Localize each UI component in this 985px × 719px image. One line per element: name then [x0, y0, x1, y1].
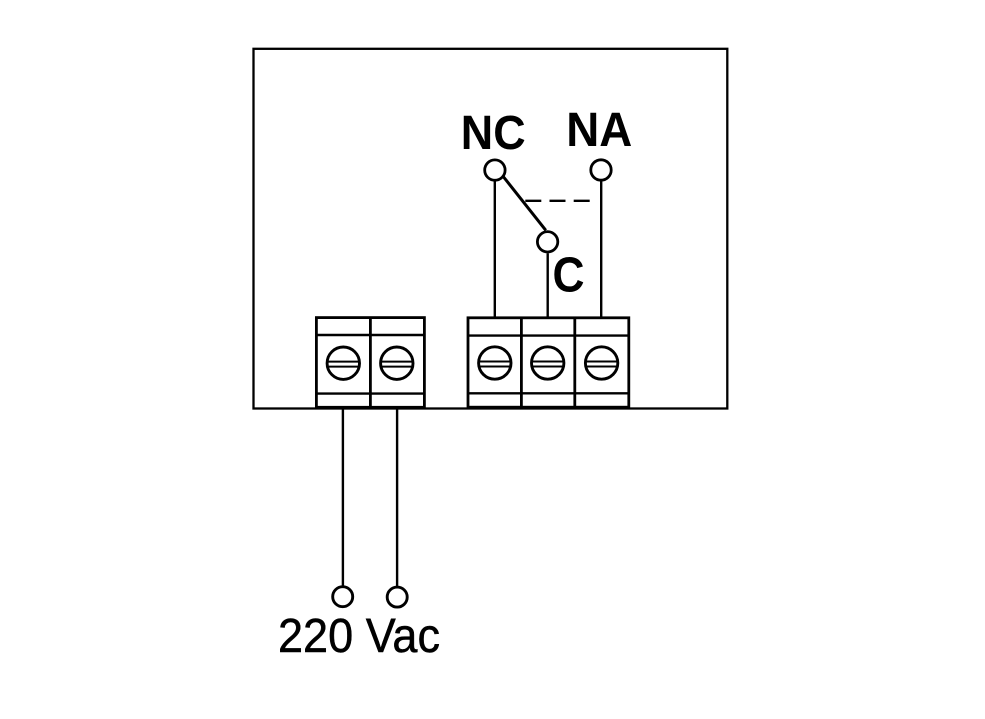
- svg-text:C: C: [553, 248, 585, 303]
- svg-text:NC: NC: [461, 107, 526, 160]
- svg-text:220 Vac: 220 Vac: [278, 610, 440, 663]
- svg-text:NA: NA: [566, 104, 632, 157]
